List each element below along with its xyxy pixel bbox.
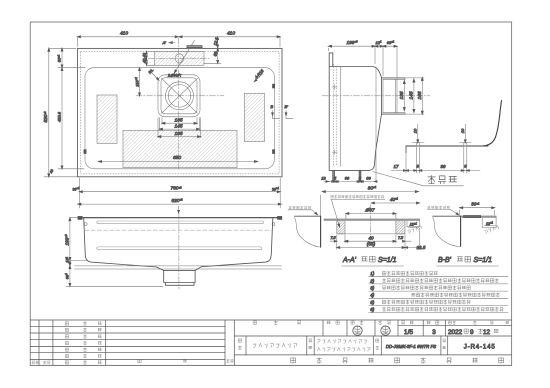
gray mark above top edge [187, 46, 202, 48]
detail label kakudaizu + leader [373, 172, 424, 186]
faucet hole [175, 54, 183, 63]
svg-text:69: 69 [366, 176, 371, 181]
natsuin column [226, 359, 229, 362]
dim 40 40 deck left [146, 52, 148, 66]
backsplash inner lines [333, 64, 335, 166]
full width lower lines [75, 265, 282, 267]
section line A vertical [178, 38, 180, 169]
sink opening outer square [158, 75, 200, 117]
dim 12.5 / 55 right of deck [217, 37, 219, 64]
revision table columns [38, 320, 40, 365]
sink diagonals [162, 78, 198, 113]
B-B leader label [428, 206, 431, 209]
side view centerline [322, 95, 430, 97]
header texts [253, 321, 257, 325]
A-A centerline [370, 205, 372, 240]
detail: rib upstands [416, 143, 419, 146]
svg-text:3): 3) [370, 286, 375, 291]
dims 135 145 165 [161, 118, 163, 125]
svg-text:9: 9 [470, 329, 474, 336]
screw center marks [332, 86, 337, 88]
clip marks on rim [84, 150, 86, 154]
A-A left break piece [295, 215, 321, 217]
svg-text:7.5: 7.5 [398, 236, 403, 240]
sink centerline horizontal [136, 95, 224, 97]
plan view: inner rounded basin rim [85, 68, 274, 169]
svg-text:B-B': B-B' [438, 257, 452, 264]
svg-text:A': A' [162, 40, 167, 45]
side bottom dims [333, 170, 335, 181]
svg-text:5): 5) [370, 300, 375, 305]
drain assembly [157, 267, 202, 286]
side top dims 199 12 68 [328, 48, 330, 51]
sink opening inner square [161, 78, 197, 114]
right hatched pad [244, 93, 264, 141]
svg-text:S=1/1: S=1/1 [474, 257, 493, 264]
bowl outline [84, 218, 273, 267]
svg-text:99: 99 [440, 164, 446, 169]
svg-text:1/5: 1/5 [404, 329, 413, 336]
hidden dashed line [85, 229, 272, 231]
dim 80 / 410.8 left [61, 48, 63, 169]
svg-text:6): 6) [370, 307, 375, 312]
svg-text:12.5: 12.5 [417, 245, 426, 250]
dim 820 [78, 203, 281, 205]
drawing sheet border frame [30, 22, 512, 365]
svg-text:650: 650 [173, 155, 181, 161]
B-B dim 30 [459, 210, 461, 215]
plan view: counter cutout dashed line [81, 52, 280, 174]
svg-text:2-Ø90穴: 2-Ø90穴 [167, 73, 181, 77]
revision table rows [30, 326, 225, 328]
lower flat bar [97, 247, 262, 250]
elevation screw circles [84, 223, 87, 226]
svg-text:(55): (55) [367, 242, 376, 248]
svg-text:135: 135 [174, 117, 182, 123]
svg-text:7.5: 7.5 [331, 236, 336, 240]
detail: wall curve [482, 101, 502, 147]
svg-text:410: 410 [227, 31, 235, 37]
detail: counter sheet line [406, 145, 488, 147]
svg-text:12: 12 [483, 329, 491, 336]
row2 verticals [245, 336, 247, 355]
bowl rim cross-section block [382, 77, 406, 79]
A-A top sheet [324, 218, 420, 220]
svg-text:3: 3 [432, 329, 436, 336]
svg-text:J-R4-145: J-R4-145 [464, 344, 496, 351]
faucet deck centerline [148, 57, 211, 59]
side view outline [329, 53, 381, 170]
top leader label t1.2 [331, 195, 334, 198]
dim 520 left [48, 48, 50, 177]
side right dims 135 145 165 [403, 81, 405, 111]
long extension line at x=376 [375, 67, 377, 182]
svg-text:10: 10 [412, 128, 417, 133]
svg-text:410.8: 410.8 [57, 111, 62, 122]
dim 40+1 upper [371, 202, 419, 204]
svg-text:135: 135 [399, 91, 405, 99]
detail: 10 dims [417, 124, 419, 143]
elevation centerline [178, 214, 180, 290]
svg-text:17: 17 [393, 164, 399, 169]
svg-text:B: B [271, 104, 274, 109]
drain circle outer [166, 82, 194, 110]
A-A bottom dims 7.5 40 7.5 [336, 235, 338, 250]
svg-text:1): 1) [370, 271, 375, 276]
svg-text:145: 145 [174, 123, 182, 129]
header verticals [322, 320, 324, 336]
leader to faucet hole [172, 40, 195, 77]
drain circle inner [168, 85, 191, 108]
plan view: sink top outer edge [78, 48, 283, 176]
dim 650 [99, 161, 258, 163]
detail: bottom dims 17 5 99 5 [405, 153, 407, 174]
svg-text:145: 145 [408, 91, 414, 99]
vertical ext line left of A-A [320, 195, 322, 216]
svg-text:2): 2) [369, 278, 375, 283]
B-B hem return [495, 216, 497, 227]
left hatched pad [97, 95, 117, 143]
stamps [353, 326, 362, 335]
A-A dim (55) and 12.5 [337, 247, 405, 249]
upper flat bar [97, 221, 264, 224]
customer row [238, 339, 241, 342]
svg-text:DD-JSMK-3F-1 9W7R FS: DD-JSMK-3F-1 9W7R FS [386, 344, 436, 349]
dim 115 [139, 68, 141, 96]
svg-text:4): 4) [370, 293, 375, 298]
svg-text:B': B' [285, 104, 289, 109]
svg-text:Ø37: Ø37 [364, 208, 374, 214]
A-A bar with hatched cut faces [337, 221, 345, 234]
dim 760 [79, 178, 81, 208]
company name row [291, 358, 296, 363]
svg-text:99: 99 [345, 176, 350, 181]
A-A left leader label [289, 206, 292, 209]
svg-text:40: 40 [368, 236, 374, 241]
B-B left break + vertical [433, 215, 461, 217]
elevation left dims 199 15 69 [69, 218, 71, 287]
faucet deck hatched rect [155, 52, 205, 66]
svg-text:A-A': A-A' [342, 257, 357, 264]
svg-text:410: 410 [120, 31, 128, 37]
bottom hatched reinforcement strip [123, 131, 237, 168]
svg-text:2022: 2022 [448, 329, 463, 336]
bottom row rev labels [32, 361, 35, 364]
elevation top surface [78, 217, 282, 219]
B-B top sheet with hem [461, 215, 497, 217]
date column kanji [65, 322, 68, 325]
svg-text:165: 165 [417, 91, 423, 99]
A-A hem right [419, 219, 421, 226]
title block outer [30, 319, 512, 321]
dim 410 410 top [78, 36, 281, 38]
dim 80 long [322, 191, 418, 193]
svg-text:10: 10 [460, 128, 465, 133]
title right block lines [234, 335, 511, 337]
svg-text:40,40: 40,40 [142, 52, 147, 63]
dim phi37 [346, 213, 396, 215]
svg-text:S=1/1: S=1/1 [378, 257, 397, 264]
svg-text:165: 165 [174, 131, 182, 137]
